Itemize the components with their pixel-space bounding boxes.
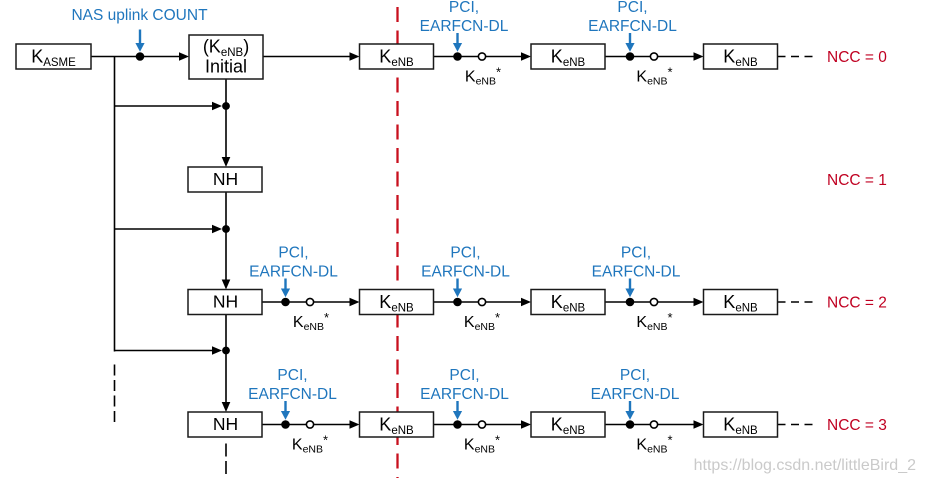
- dot KeNB* C2: [626, 420, 635, 429]
- svg-text:EARFCN-DL: EARFCN-DL: [249, 264, 338, 281]
- circle KeNB* B2: [650, 298, 657, 305]
- svg-text:KeNB*: KeNB*: [464, 433, 500, 456]
- svg-text:NCC = 0: NCC = 0: [827, 49, 887, 66]
- svg-text:KeNB*: KeNB*: [636, 65, 672, 88]
- PCI A2 arrow: [629, 33, 631, 45]
- dot KeNB* B0: [281, 298, 290, 307]
- wire NH to KeNB C1: [262, 424, 352, 426]
- wire NH2 down to junction 3: [225, 315, 227, 351]
- wire KeNB A1 to KeNB A2: [434, 56, 524, 58]
- wire KeNB C2 to C3: [605, 424, 696, 426]
- dot KeNB* B1: [453, 298, 462, 307]
- wire KASME to junction: [91, 56, 182, 58]
- svg-text:PCI,: PCI,: [450, 245, 480, 262]
- box KeNB A1: [360, 44, 434, 69]
- handover boundary dashed red line: [396, 7, 398, 478]
- svg-text:PCI,: PCI,: [449, 0, 479, 16]
- wire NH1 down to junction 2: [225, 192, 227, 229]
- svg-text:PCI,: PCI,: [621, 245, 651, 262]
- svg-text:KeNB*: KeNB*: [636, 310, 672, 333]
- wire dashed below NH3: [225, 444, 227, 479]
- box KeNB B2: [531, 290, 605, 315]
- wire junction 3 to NH3: [225, 351, 227, 405]
- svg-text:Initial: Initial: [205, 57, 247, 77]
- svg-text:EARFCN-DL: EARFCN-DL: [421, 264, 510, 281]
- PCI C0 arrow: [284, 401, 286, 413]
- svg-text:NCC = 1: NCC = 1: [827, 172, 887, 189]
- junction dot 1: [222, 102, 230, 110]
- circle KeNB* C0: [306, 421, 313, 428]
- wire branch to junction 3: [115, 350, 215, 352]
- circle KeNB* B0: [306, 298, 313, 305]
- junction dot 2: [222, 225, 230, 233]
- dot KeNB* A2: [626, 52, 635, 61]
- circle KeNB* B1: [478, 298, 485, 305]
- box NH3: [188, 412, 262, 437]
- PCI C1 arrow: [456, 401, 458, 413]
- circle KeNB* C1: [478, 421, 485, 428]
- box KeNB Initial: [189, 35, 263, 79]
- junction dot 3: [222, 347, 230, 355]
- svg-text:EARFCN-DL: EARFCN-DL: [420, 18, 509, 35]
- dot KeNB* A1: [453, 52, 462, 61]
- svg-text:NH: NH: [213, 414, 238, 434]
- box NH2: [188, 290, 262, 315]
- svg-text:EARFCN-DL: EARFCN-DL: [591, 386, 680, 403]
- svg-text:PCI,: PCI,: [278, 245, 308, 262]
- circle KeNB* A1: [478, 53, 485, 60]
- svg-text:NH: NH: [213, 169, 238, 189]
- NAS uplink COUNT arrow: [139, 30, 141, 44]
- wire Initial to KeNB A1: [263, 56, 352, 58]
- wire left bus vertical: [114, 57, 116, 352]
- PCI B0 arrow: [284, 279, 286, 291]
- box NH1: [188, 167, 262, 192]
- box KeNB C2: [531, 412, 605, 437]
- wire left bus vertical dashed tail: [114, 365, 116, 425]
- svg-text:KeNB*: KeNB*: [292, 433, 328, 456]
- dot KeNB* B2: [626, 298, 635, 307]
- box KeNB C1: [360, 412, 434, 437]
- PCI C2 arrow: [629, 401, 631, 413]
- PCI B1 arrow: [456, 279, 458, 291]
- box KeNB A3: [704, 44, 778, 69]
- svg-text:EARFCN-DL: EARFCN-DL: [592, 264, 681, 281]
- svg-text:KeNB*: KeNB*: [464, 310, 500, 333]
- svg-text:NCC = 2: NCC = 2: [827, 295, 887, 312]
- box KeNB B1: [360, 290, 434, 315]
- wire KeNB B1 to B2: [434, 301, 524, 303]
- svg-text:NCC = 3: NCC = 3: [827, 417, 887, 434]
- svg-text:PCI,: PCI,: [449, 367, 479, 384]
- svg-text:PCI,: PCI,: [620, 367, 650, 384]
- box KeNB C3: [704, 412, 778, 437]
- wire KeNB C1 to C2: [434, 424, 524, 426]
- svg-text:KeNB*: KeNB*: [465, 65, 501, 88]
- box KASME: [16, 44, 91, 69]
- svg-text:PCI,: PCI,: [277, 367, 307, 384]
- dot KeNB* C1: [453, 420, 462, 429]
- svg-text:PCI,: PCI,: [617, 0, 647, 16]
- wire junction 2 to NH2: [225, 229, 227, 282]
- dot NAS junction: [136, 52, 145, 61]
- wire dashed to NCC 0: [778, 56, 815, 58]
- wire dashed to NCC B: [778, 301, 815, 303]
- wire branch to junction 1: [115, 105, 215, 107]
- PCI A1 arrow: [456, 33, 458, 45]
- svg-text:NAS uplink COUNT: NAS uplink COUNT: [71, 7, 208, 24]
- wire dashed to NCC C: [778, 424, 815, 426]
- circle KeNB* A2: [650, 53, 657, 60]
- wire branch to junction 2: [115, 228, 215, 230]
- circle KeNB* C2: [650, 421, 657, 428]
- box KeNB B3: [704, 290, 778, 315]
- wire junction 1 to NH1: [225, 106, 227, 160]
- wire Initial down to junction 1: [225, 79, 227, 106]
- box KeNB A2: [531, 44, 605, 69]
- svg-text:NH: NH: [213, 292, 238, 312]
- wire NH to KeNB B1: [262, 301, 352, 303]
- svg-text:EARFCN-DL: EARFCN-DL: [420, 386, 509, 403]
- svg-text:EARFCN-DL: EARFCN-DL: [588, 18, 677, 35]
- svg-text:KeNB*: KeNB*: [293, 310, 329, 333]
- svg-text:KeNB*: KeNB*: [636, 433, 672, 456]
- PCI B2 arrow: [629, 279, 631, 291]
- svg-text:https://blog.csdn.net/littleBi: https://blog.csdn.net/littleBird_2: [694, 457, 916, 474]
- wire KeNB B2 to B3: [605, 301, 696, 303]
- svg-text:EARFCN-DL: EARFCN-DL: [248, 386, 337, 403]
- wire KeNB A2 to KeNB A3: [605, 56, 696, 58]
- dot KeNB* C0: [281, 420, 290, 429]
